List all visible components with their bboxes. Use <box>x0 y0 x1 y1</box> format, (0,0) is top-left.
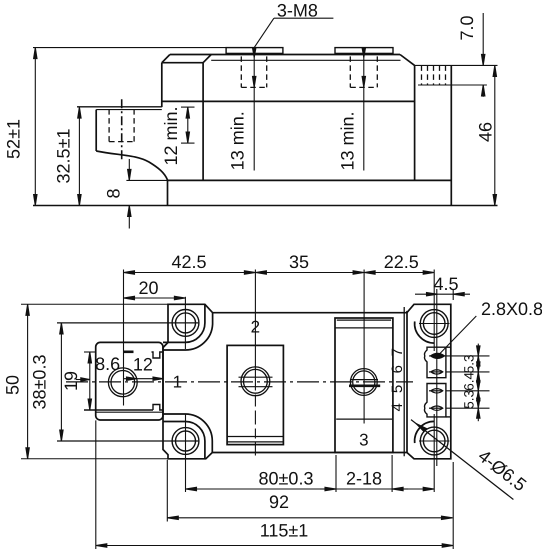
hole vertical bottom-left <box>185 414 187 492</box>
flange curve <box>96 151 167 180</box>
svg-text:80±0.3: 80±0.3 <box>259 469 314 489</box>
plan view texts <box>3 252 542 541</box>
hole vertical top-left <box>184 297 186 349</box>
svg-text:5: 5 <box>389 385 406 393</box>
svg-text:92: 92 <box>269 492 289 512</box>
dim 2-18 outside arrows <box>320 488 336 490</box>
right tab bottom line + extension <box>418 84 487 86</box>
thread hole pad2 right <box>376 56 378 87</box>
flange top second line <box>96 109 162 111</box>
flange left edge <box>95 110 97 151</box>
plan view dimensions <box>21 271 513 549</box>
svg-text:1: 1 <box>173 373 182 392</box>
terminal 3 top lines <box>337 319 391 321</box>
mounting hole bottom-left inner <box>176 431 196 451</box>
dim 22.5 <box>364 272 434 274</box>
pin centerline vertical <box>436 289 438 466</box>
terminal 3 hole outer <box>350 369 377 396</box>
module outline <box>163 304 451 459</box>
interior wall right section <box>406 311 408 452</box>
flange hole centerline <box>121 99 123 160</box>
svg-text:8.6: 8.6 <box>95 354 120 374</box>
thread hole pad1 left <box>240 56 242 87</box>
leader 2.8X0.8 <box>439 316 477 355</box>
svg-text:13 min.: 13 min. <box>337 111 357 170</box>
hole centerline horizontal bottom-right <box>419 440 450 442</box>
svg-text:13 min.: 13 min. <box>228 111 248 170</box>
terminal 2 centerline vertical <box>254 270 256 458</box>
dim 4.5 right extension <box>452 289 454 300</box>
svg-text:7: 7 <box>389 348 406 356</box>
dim 80 line <box>186 488 435 490</box>
boss arc top-left <box>163 304 205 342</box>
13min line 2 <box>363 48 365 171</box>
side view texts <box>3 1 495 199</box>
side view dimension lines <box>33 13 498 229</box>
dim 50 extensions <box>21 303 168 305</box>
dim 52±1 line <box>34 48 36 206</box>
hole vertical bottom-right <box>433 414 435 492</box>
3-M8 leader <box>274 17 334 19</box>
svg-text:3: 3 <box>359 431 368 450</box>
dim 8 extension at 180.4 <box>126 179 167 181</box>
dim 20 line <box>124 297 186 299</box>
thread hole pad1 bottom <box>241 86 266 88</box>
svg-text:38±0.3: 38±0.3 <box>29 355 49 410</box>
thread hole pad2 bottom <box>350 86 377 88</box>
svg-text:115±1: 115±1 <box>260 521 309 541</box>
dim 7.0 lower arrow <box>482 85 484 97</box>
dim 35 arrows <box>255 272 364 274</box>
svg-text:35: 35 <box>289 252 309 272</box>
baseplate top line <box>168 179 452 181</box>
small arrows left of flange <box>76 379 90 381</box>
svg-text:2.8X0.8: 2.8X0.8 <box>481 299 542 319</box>
dim 19 line <box>89 352 91 410</box>
terminal number labels <box>173 318 369 450</box>
boss arc top-right <box>415 321 435 343</box>
terminal 1 slot bottom edge <box>84 405 163 411</box>
plan view center lines <box>57 270 490 493</box>
svg-text:52±1: 52±1 <box>3 119 23 159</box>
leader 4-Ø6.5 <box>411 420 513 500</box>
extension verticals bottom <box>95 420 97 549</box>
svg-text:12 min.: 12 min. <box>161 106 181 165</box>
body vertical divider right <box>414 65 416 180</box>
svg-text:12: 12 <box>133 355 153 375</box>
top extension line y=47.6 <box>33 47 226 49</box>
pin chain dim line <box>477 344 479 422</box>
dim 42.5 line <box>124 272 256 274</box>
left step bevel left <box>162 55 170 63</box>
svg-text:8: 8 <box>103 188 123 198</box>
right edge <box>450 65 452 205</box>
svg-text:4-Ø6.5: 4-Ø6.5 <box>474 446 530 496</box>
svg-text:7.0: 7.0 <box>457 15 477 40</box>
mounting hole top-right inner <box>423 313 445 335</box>
svg-text:4.5: 4.5 <box>433 274 458 294</box>
boss arc top-left outer contour <box>163 313 213 350</box>
svg-text:2-18: 2-18 <box>346 469 382 489</box>
pin number labels <box>389 348 406 411</box>
main horizontal centerline <box>66 381 413 383</box>
svg-text:3-M8: 3-M8 <box>277 1 318 21</box>
terminal 2 hole inner <box>244 369 268 393</box>
terminal 3 hole inner <box>353 371 375 393</box>
pin 5 <box>431 389 443 393</box>
flange hole left <box>108 109 110 142</box>
dim 8 lower arrow <box>128 206 130 229</box>
terminal 3 nut chord thin <box>350 379 378 381</box>
flange hole bottom <box>109 141 134 143</box>
svg-text:19: 19 <box>61 371 81 391</box>
baseplate left edge <box>167 180 169 205</box>
terminal 3 centerline vertical <box>363 270 365 424</box>
mounting hole top-left inner <box>176 313 196 333</box>
dim 32.5±1 line <box>78 107 80 205</box>
dim 92 line <box>167 517 452 519</box>
module top face line <box>170 54 400 56</box>
dim 12min line <box>187 107 189 143</box>
terminal pad 2 <box>335 48 393 54</box>
baseplate bottom line with extensions <box>33 205 498 207</box>
boss arc bottom-left outer contour <box>163 414 212 453</box>
mounting hole top-left outer <box>172 310 199 337</box>
dim 12 line with arrows <box>123 378 163 380</box>
svg-text:6: 6 <box>389 365 406 373</box>
right tab top extension <box>415 64 498 66</box>
svg-text:5.3: 5.3 <box>462 390 477 409</box>
terminal 1 hole inner <box>111 371 135 395</box>
terminal 2 bottom strip lines <box>227 436 283 438</box>
connector housing 1 <box>424 347 445 378</box>
terminal 1 slot top edge <box>84 351 96 353</box>
svg-text:6.4: 6.4 <box>462 372 477 391</box>
plan view pins <box>429 353 445 410</box>
mounting hole top-right outer <box>420 310 448 338</box>
dim 8 upper arrow <box>128 159 130 180</box>
pin 4 <box>431 406 443 410</box>
terminal 2 block <box>227 345 283 444</box>
dim 7.0 line upper <box>482 13 484 65</box>
terminal 2 nut chords <box>239 376 273 378</box>
svg-text:4: 4 <box>389 403 406 411</box>
body horizontal line <box>162 100 415 102</box>
terminal 1 lower inner line <box>96 411 163 413</box>
terminal 1 flange block <box>96 342 163 420</box>
right top bevel <box>400 55 415 66</box>
hole centerline horizontal bottom-left <box>57 440 198 442</box>
thread hole pad1 right <box>266 56 268 87</box>
mounting hole bottom-right outer <box>420 427 448 455</box>
terminal 1 centerline vertical <box>123 270 125 406</box>
dim 50 line <box>27 304 29 459</box>
terminal pad 1 <box>226 48 283 54</box>
terminal 3 nut chord thick <box>349 384 380 387</box>
module left edge <box>161 63 163 107</box>
svg-text:20: 20 <box>138 278 158 298</box>
svg-text:42.5: 42.5 <box>171 252 206 272</box>
boss arc bottom-left <box>163 422 205 459</box>
housing2 bottom edge extension <box>446 416 451 418</box>
terminal 1 slot top thick segment <box>123 350 134 353</box>
housing1 top edge extension <box>446 346 451 348</box>
svg-text:46: 46 <box>475 122 495 142</box>
boss arc bottom-right <box>415 421 435 443</box>
terminal 1 hole outer <box>108 368 137 397</box>
svg-text:50: 50 <box>3 375 23 395</box>
dim 46 line <box>494 65 496 205</box>
thread hole pad2 left <box>349 56 351 87</box>
svg-text:2: 2 <box>251 318 260 337</box>
connector tab dashed lines <box>421 65 423 85</box>
body vertical divider left <box>202 63 204 181</box>
terminal 3 bottom band line <box>336 418 392 420</box>
hole centerline horizontal top-right <box>419 323 450 325</box>
interior wall second line <box>403 307 405 456</box>
terminal 3 block <box>335 318 393 452</box>
pin extension lines <box>429 355 490 357</box>
dim 115 line <box>96 545 453 547</box>
module top inner face line <box>211 59 400 61</box>
dim 38 line <box>60 323 62 441</box>
left step bevel right <box>203 55 211 63</box>
connector housing 2 <box>424 384 445 417</box>
mounting hole bottom-left outer <box>172 428 199 455</box>
left step top line <box>162 62 203 64</box>
dashed hidden lines, side view <box>109 56 445 141</box>
terminal 2 hole outer <box>241 367 270 396</box>
flange top line (with 32.5 extension) <box>77 106 162 108</box>
pin 6 <box>431 370 443 374</box>
13min line 1 <box>253 48 255 171</box>
mounting hole bottom-right inner <box>423 430 445 452</box>
hole centerline horizontal top-left <box>57 322 198 324</box>
flange hole right <box>133 109 135 142</box>
pin 7 (filled) <box>431 353 445 358</box>
svg-text:5.3: 5.3 <box>462 355 477 374</box>
dim 2-18 extensions <box>335 455 337 492</box>
svg-text:32.5±1: 32.5±1 <box>53 129 73 184</box>
svg-text:22.5: 22.5 <box>384 252 419 272</box>
hole vertical top-right <box>433 270 435 352</box>
dim 4.5 line <box>415 293 470 295</box>
